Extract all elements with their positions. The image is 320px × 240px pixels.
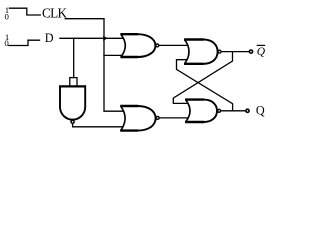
svg-text:D: D <box>45 31 54 45</box>
svg-text:Q: Q <box>256 103 265 117</box>
svg-text:CLK: CLK <box>42 6 67 21</box>
svg-text:0: 0 <box>5 12 10 22</box>
svg-text:Q: Q <box>257 46 266 58</box>
svg-text:0: 0 <box>4 38 9 48</box>
